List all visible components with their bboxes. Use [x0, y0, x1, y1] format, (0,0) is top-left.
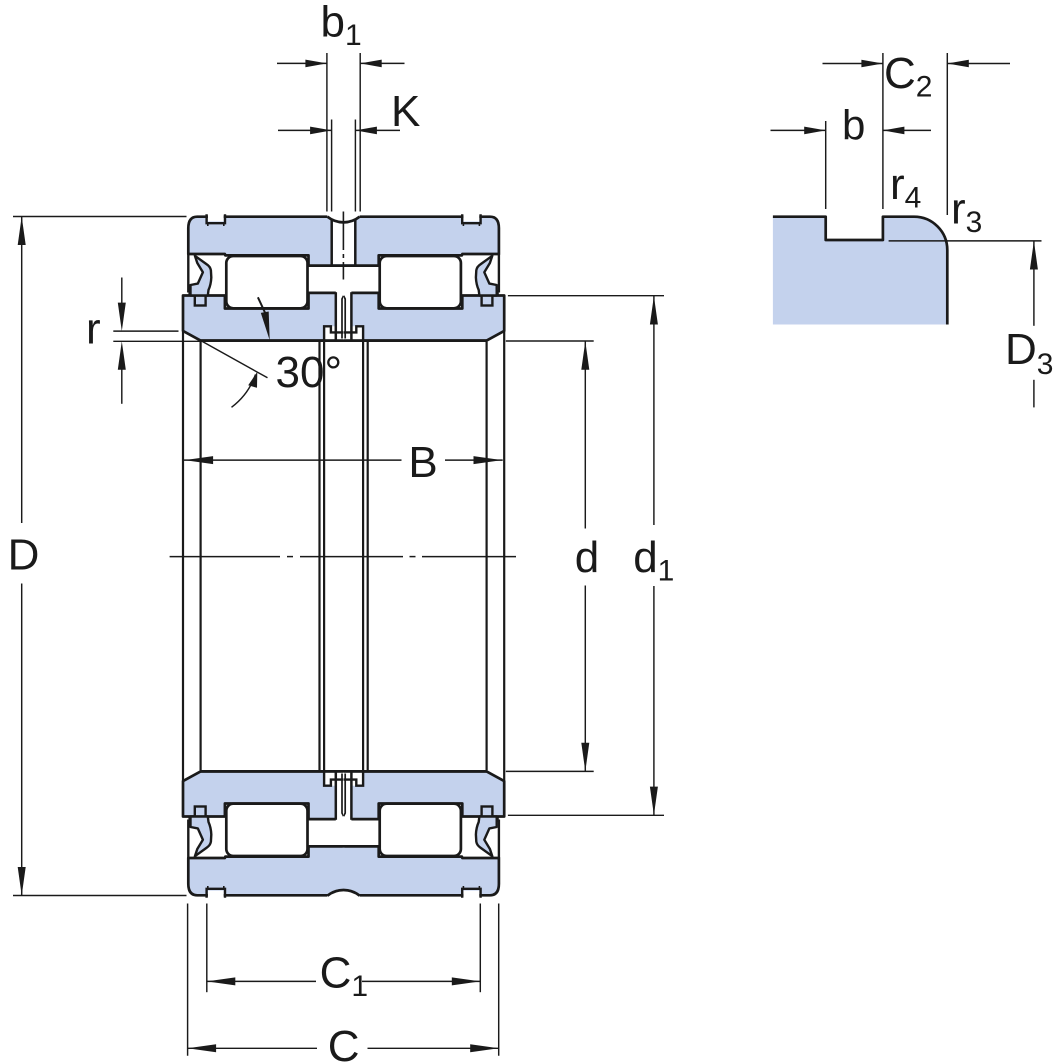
leader arrow to inner ring split: [258, 297, 265, 313]
dimension d1: [508, 296, 664, 816]
svg-text:d: d: [575, 533, 599, 582]
dimension C2: [823, 53, 1011, 215]
dimension K: [278, 120, 400, 212]
svg-text:30°: 30°: [276, 348, 343, 397]
horizontal axis centerline: [170, 556, 516, 558]
svg-text:D: D: [8, 531, 40, 580]
svg-text:C: C: [328, 1022, 360, 1064]
svg-text:K: K: [391, 87, 420, 136]
dimension d: [506, 341, 594, 771]
dimension D: [13, 217, 187, 896]
dimension r: [113, 278, 265, 404]
dimension C: [188, 904, 499, 1056]
detail view: outer ring corner with groove: [773, 217, 947, 325]
lubrication hole through top outer ring: [332, 219, 356, 265]
dimension C1: [207, 904, 481, 993]
vertical centerline of lube hole: [342, 212, 344, 280]
dimension D3: [889, 241, 1042, 408]
annular lube groove in bottom OD: [327, 890, 359, 899]
seam patch bottom outer ring: [343, 848, 345, 894]
svg-text:b: b: [842, 102, 865, 149]
dimension B: [184, 459, 503, 461]
dimension b1: [277, 53, 405, 212]
bearing quadrants: [183, 214, 344, 556]
30 degree chamfer callout: [202, 341, 268, 378]
svg-text:r: r: [86, 305, 101, 354]
dimension b: [771, 121, 932, 209]
svg-text:B: B: [408, 438, 437, 487]
lubrication groove dip in top OD: [327, 214, 359, 223]
